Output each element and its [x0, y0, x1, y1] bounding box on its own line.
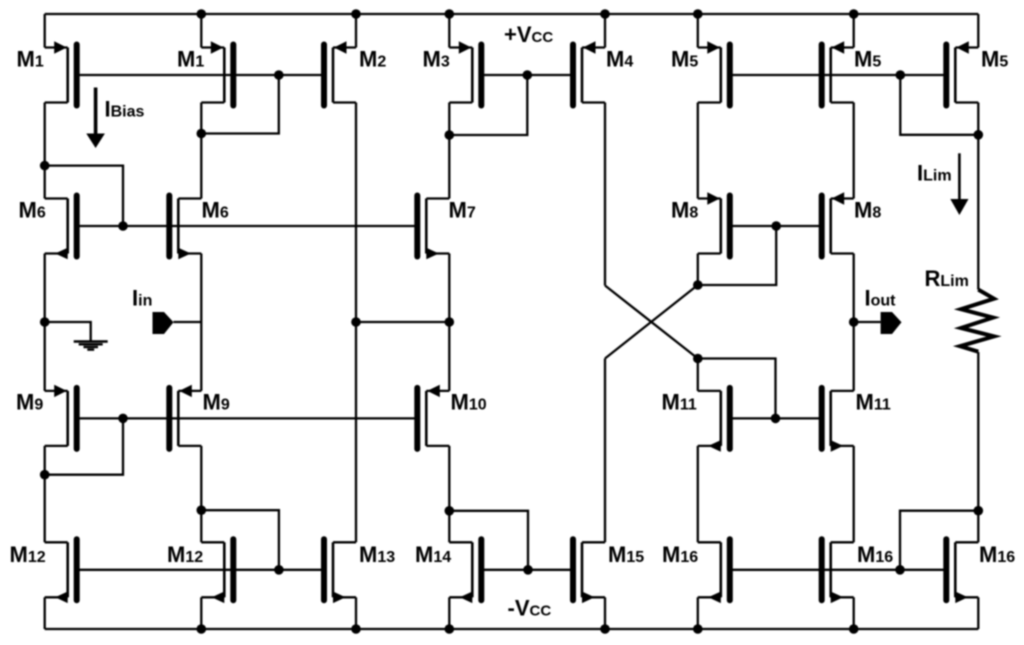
wire col2 M9 drain to M12 drain — [200, 446, 202, 542]
wire col3 M2 drain down to M13 drain — [355, 103, 357, 543]
wire M14 gate-drain link — [449, 511, 528, 570]
junction dot M14 drain col4 — [445, 506, 455, 516]
current arrow IBias — [86, 88, 105, 149]
transistor M10 — [417, 385, 449, 449]
junction dot M6 gate node — [118, 221, 128, 231]
wire M6 gate-drain link — [45, 166, 123, 226]
wire crossover diagonal M8 node to M15 drain — [605, 285, 698, 359]
wire col1 source of M1 from top rail — [44, 14, 46, 48]
wire gate line M16-M16-M16 — [730, 569, 947, 571]
wire col8 M16 source to bottom rail — [977, 597, 979, 629]
wire col7 M5 drain to M8 source — [853, 103, 855, 199]
wire cascode mid link M7/M10 to M2 drain — [356, 321, 449, 323]
wire gate line M3-M4 — [481, 74, 573, 76]
junction dot M14 gate node — [523, 565, 533, 575]
wire Iin branch — [174, 321, 202, 323]
transistor M11 (row C col 6) — [698, 388, 730, 452]
junction dot M16 drain col8 — [974, 506, 984, 516]
junction dot mid node M7/M10 — [445, 317, 455, 327]
transistor M2 — [324, 41, 356, 105]
wire col1 M6 source to M9 source (ground node) — [44, 254, 46, 391]
junction dot mid node M2 drain — [351, 317, 361, 327]
transistor M9 (row C col 2) — [169, 385, 201, 449]
transistor M6 (row B col 2) — [169, 196, 201, 260]
current arrow Iin — [153, 312, 174, 334]
wire M5 gate-drain link — [900, 75, 978, 135]
wire col7 M11 source to M16 drain — [853, 446, 855, 542]
wire col6 crossover node to M11 drain — [697, 359, 699, 391]
junction dot M1 drain col2 — [197, 129, 207, 139]
junction dot M9 gate node — [118, 414, 128, 424]
transistor M1 (row A col 1) — [45, 41, 77, 105]
wire ground branch — [45, 322, 91, 341]
wire col4 source of M3 from top rail — [448, 14, 450, 48]
junction dot M6 drain col1 — [40, 161, 50, 171]
junction dot M3 drain col4 — [445, 130, 455, 140]
transistor M13 — [324, 539, 356, 603]
wire M11 gate link to crossover node — [698, 359, 776, 419]
junction dot M16 gate node — [895, 565, 905, 575]
transistor M16 (row D col 7) — [822, 539, 854, 603]
resistor RLim — [960, 290, 994, 352]
wire col4 M7 source to M10 drain — [448, 254, 450, 391]
transistor M3 — [449, 41, 481, 105]
wire M12 gate-drain link — [201, 510, 279, 570]
wire col4 M3 drain to M7 drain — [448, 103, 450, 199]
wire col4 M10 source to M14 drain — [448, 446, 450, 542]
wire Iout branch — [854, 321, 881, 323]
wire gate line M1-M1-M2 — [77, 74, 324, 76]
wire M3 gate-drain link — [449, 75, 527, 135]
transistor M16 (row D col 8) — [946, 539, 978, 603]
wire col6 M11 source to M16 drain — [697, 446, 699, 542]
wire col1 M1 drain to M6 drain — [44, 103, 46, 199]
wire -Vcc bottom rail — [45, 628, 979, 630]
wire M16 gate-drain link — [900, 511, 978, 570]
wire col3 source of M2 from top rail — [355, 14, 357, 48]
wire gate line M5-M5-M5 — [730, 74, 947, 76]
transistor M11 (row C col 7) — [822, 388, 854, 452]
transistor M14 — [449, 539, 481, 603]
wire gate line M9-M9-M10 — [77, 417, 418, 419]
wire col6 M5 drain to M8 source — [697, 103, 699, 199]
current arrow ILim — [950, 153, 968, 215]
junction dot M5 gate node — [896, 70, 906, 80]
wire col7 M8 drain to M11 drain (Iout node) — [853, 254, 855, 391]
wire M8 gate-drain link — [698, 226, 776, 285]
wire col8 M16 drain — [977, 511, 979, 543]
wire col5 crossover down to M15 drain — [604, 359, 606, 543]
transistor M12 (row D col 2) — [201, 539, 233, 603]
transistor M5 (row A col 7) — [822, 41, 854, 105]
wire col8 M5 drain to RLim node — [977, 103, 979, 135]
transistor M16 (row D col 6) — [698, 539, 730, 603]
wire col5 M4 drain down to crossover — [604, 103, 606, 286]
junction dot M8 gate node — [771, 221, 781, 231]
wire col8 RLim top lead — [977, 135, 979, 290]
junction dots top rail — [197, 9, 859, 19]
junction dot M12 drain col2 — [197, 505, 207, 515]
wire col8 RLim bottom lead to M16 drain node — [977, 352, 979, 511]
transistor M4 — [573, 41, 605, 105]
transistor M15 — [573, 539, 605, 603]
current arrow Iout — [881, 312, 902, 334]
transistor M5 (row A col 8) — [946, 41, 978, 105]
junction dot M1 gate node — [274, 70, 284, 80]
junction dot M11 drain crossover — [693, 354, 703, 364]
transistor M8 (row B col 6) — [698, 192, 730, 256]
wire M1 gate-drain link — [201, 75, 278, 134]
wire col5 source of M4 from top rail — [604, 14, 606, 48]
junction dot M5 drain col8 — [974, 130, 984, 140]
ground — [74, 342, 108, 350]
wire col2 source of M1 from top rail — [200, 14, 202, 48]
wire col4 M14 source to bottom rail — [448, 597, 450, 629]
junction dot ground node — [40, 317, 50, 327]
wire col3 M13 source to bottom rail — [355, 597, 357, 629]
wire col2 M12 source to bottom rail — [200, 597, 202, 629]
wire gate line M6-M6-M7 — [77, 225, 418, 227]
wire col2 M1 drain to M6 drain — [200, 103, 202, 199]
transistor M7 — [417, 196, 449, 260]
wire col5 M15 source to bottom rail — [604, 597, 606, 629]
transistor M5 (row A col 6) — [698, 41, 730, 105]
wire col1 M9 drain to M12 drain — [44, 446, 46, 542]
wire col6 M8 drain to crossover node — [697, 254, 699, 286]
transistor M6 (row B col 1) — [45, 196, 77, 260]
wire col8 source of M5 from top rail — [977, 14, 979, 48]
wire crossover diagonal M4 drain to M11 node — [605, 286, 698, 359]
junction dot M11 gate node — [771, 414, 781, 424]
junction dot M3 gate node — [523, 70, 533, 80]
wire col6 M16 source to bottom rail — [697, 597, 699, 629]
transistor M8 (row B col 7) — [822, 192, 854, 256]
transistor M9 (row C col 1) — [45, 385, 77, 449]
junction dots bottom rail — [197, 624, 859, 634]
wire +Vcc top rail — [45, 13, 979, 15]
wire col7 M16 source to bottom rail — [853, 597, 855, 629]
junction dot M12 gate node — [274, 565, 284, 575]
wire col2 M6 source to M9 source (Iin node) — [200, 254, 202, 391]
wire gate line M8-M8 — [730, 225, 822, 227]
transistor M1 (row A col 2) — [201, 41, 233, 105]
junction dot Iout node — [849, 317, 859, 327]
wire gate line M14-M15 — [481, 569, 573, 571]
wire gate line M11-M11 — [730, 417, 822, 419]
transistor M12 (row D col 1) — [45, 539, 77, 603]
junction dot M8 drain crossover — [693, 280, 703, 290]
wire col7 source of M5 from top rail — [853, 14, 855, 48]
wire gate line M12-M12-M13 — [77, 569, 324, 571]
wire M9 gate-drain link — [45, 418, 123, 474]
wire col6 source of M5 from top rail — [697, 14, 699, 48]
junction dot M9 drain col1 — [40, 470, 50, 480]
wire col1 M12 source to bottom rail — [44, 597, 46, 629]
